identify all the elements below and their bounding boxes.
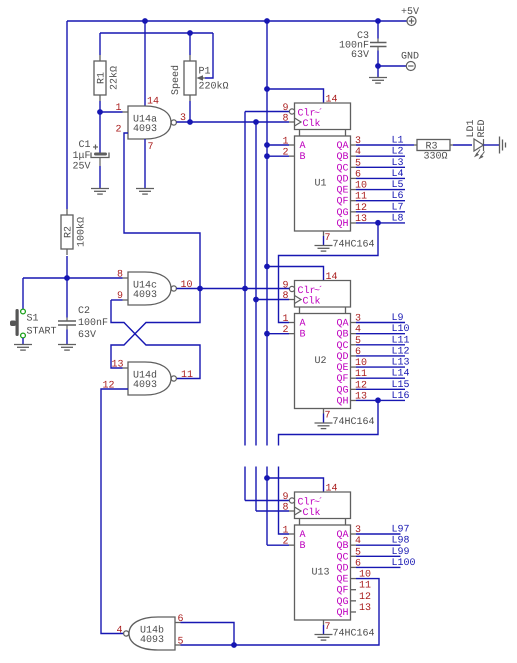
svg-text:63V: 63V	[78, 330, 96, 341]
wire latch: U14d out to U14c pin 9	[111, 300, 200, 379]
capacitor C2	[58, 318, 76, 330]
svg-text:QB: QB	[336, 330, 348, 341]
wire U14a output (clock net)	[177, 121, 290, 123]
junction U1 QH	[375, 220, 381, 226]
shift register U13 top section (Clr/Clk box)	[295, 492, 351, 525]
wire U1 Clr from clear net	[245, 111, 289, 113]
svg-text:100nF: 100nF	[78, 318, 108, 329]
wire S1 to ground	[22, 338, 24, 345]
svg-text:L8: L8	[392, 213, 404, 224]
wire U1 QH output	[356, 222, 405, 224]
U1 Clk wedge	[295, 118, 302, 126]
svg-text:11: 11	[359, 581, 371, 592]
svg-text:B: B	[300, 152, 306, 163]
junction U14b pins 5/6	[231, 642, 237, 648]
wire U13 QB output	[356, 544, 401, 546]
ground C2	[58, 345, 76, 351]
svg-text:9: 9	[282, 281, 288, 292]
svg-text:A: A	[300, 319, 306, 330]
wire U2 pin 7 to ground	[323, 414, 325, 424]
svg-text:QE: QE	[336, 186, 348, 197]
junction R2/S1/C2	[64, 275, 70, 281]
wire U13 B	[267, 544, 289, 546]
svg-text:7: 7	[325, 622, 331, 633]
junction U14c out / clear vertical	[242, 286, 248, 292]
junction VCC / U1 B	[264, 153, 270, 159]
svg-text:QA: QA	[336, 530, 348, 541]
svg-text:+5V: +5V	[401, 7, 419, 18]
wire P1 wiper to bus	[205, 33, 213, 78]
U2 pin QH stub	[351, 399, 357, 401]
wire U2 clk tap	[256, 299, 289, 301]
power symbol +5V	[407, 17, 416, 26]
svg-text:14: 14	[326, 272, 338, 283]
svg-text:L15: L15	[392, 380, 410, 391]
shift register U2 main body	[295, 314, 351, 409]
U13 pin QB stub	[351, 544, 357, 546]
wire U2 QA output	[356, 322, 405, 324]
wire U1 QD output	[356, 177, 405, 179]
wire node to C1	[99, 112, 101, 153]
U1 pin QG stub	[351, 211, 357, 213]
svg-text:L13: L13	[392, 358, 410, 369]
svg-text:22kΩ: 22kΩ	[109, 66, 121, 90]
U2 Clk wedge	[295, 296, 302, 304]
U13 pin QG stub	[351, 600, 357, 602]
wire U1 QA output	[356, 144, 405, 146]
junction VCC / U1 A	[264, 142, 270, 148]
svg-text:2: 2	[116, 125, 122, 136]
wire U14d pin 12 from U14b output	[101, 389, 128, 634]
svg-text:7: 7	[325, 233, 331, 244]
shift register U2 top section (Clr/Clk box)	[295, 281, 351, 314]
svg-text:L3: L3	[392, 158, 404, 169]
junction U14c out / latch	[197, 286, 203, 292]
U1 pin QC stub	[351, 166, 357, 168]
svg-text:L98: L98	[392, 536, 410, 547]
svg-text:L10: L10	[392, 324, 410, 335]
wire U2 QF output	[356, 377, 405, 379]
svg-text:4: 4	[117, 626, 123, 637]
junction VCC / U13 pin14	[264, 475, 270, 481]
wire R1 bottom to node	[99, 101, 101, 112]
svg-text:QB: QB	[336, 152, 348, 163]
svg-text:QH: QH	[336, 396, 348, 407]
svg-text:P1: P1	[199, 67, 211, 78]
U13 pin QC stub	[351, 555, 357, 557]
U1 pin QA stub	[351, 144, 357, 146]
wire U1 pin 14 branch	[267, 89, 324, 103]
node VCC top bus	[67, 20, 407, 22]
wire R2 bottom	[66, 256, 68, 278]
capacitor C3	[370, 39, 387, 51]
svg-text:QG: QG	[336, 597, 348, 608]
wire clear net vertical	[245, 112, 289, 501]
U13 pin QD stub	[351, 566, 357, 568]
junction VCC / U2 B	[264, 331, 270, 337]
svg-text:RED: RED	[477, 119, 488, 137]
svg-text:25V: 25V	[73, 162, 91, 173]
wire U2 QD output	[356, 355, 405, 357]
ground U1 pin7	[315, 246, 333, 252]
svg-text:8: 8	[117, 270, 123, 281]
junction output / clock vertical	[253, 119, 259, 125]
svg-text:L4: L4	[392, 169, 404, 180]
svg-text:330Ω: 330Ω	[424, 152, 448, 163]
wire U1 A	[267, 144, 289, 146]
svg-text:QE: QE	[336, 575, 348, 586]
svg-text:L100: L100	[392, 558, 416, 569]
junction VCC / U2 pin14	[264, 264, 270, 270]
U1 Clr bubble	[289, 109, 294, 114]
wire clock net vertical	[256, 122, 289, 511]
svg-text:14: 14	[326, 95, 338, 106]
wire GND connector	[378, 65, 406, 67]
svg-text:A: A	[300, 530, 306, 541]
svg-text:QG: QG	[336, 385, 348, 396]
U13 Clr bubble	[289, 498, 294, 503]
svg-text:8: 8	[282, 503, 288, 514]
svg-text:100kΩ: 100kΩ	[76, 217, 88, 247]
U1 pin QF stub	[351, 200, 357, 202]
ground U14a pin7	[136, 189, 154, 195]
wire P1 top	[189, 33, 191, 55]
nand gate U14a	[128, 106, 171, 139]
ground U2 pin7	[315, 423, 333, 429]
wire P1 bottom to U14a output	[189, 101, 191, 122]
svg-text:S1: S1	[27, 314, 39, 325]
wire C2 to ground	[66, 330, 68, 345]
wire U13 QA output	[356, 533, 401, 535]
svg-text:7: 7	[148, 142, 154, 153]
junction clock / U2 clk	[253, 297, 259, 303]
U1 pin QH stub	[351, 222, 357, 224]
svg-text:LD1: LD1	[466, 119, 477, 137]
svg-text:5: 5	[178, 637, 184, 648]
U2 pin QD stub	[351, 355, 357, 357]
svg-text:14: 14	[147, 97, 159, 108]
svg-text:12: 12	[359, 592, 371, 603]
shift register U1 main body	[295, 136, 351, 231]
svg-text:4093: 4093	[133, 290, 157, 301]
U2 pin QA stub	[351, 322, 357, 324]
svg-text:6: 6	[178, 614, 184, 625]
junction R1/C1/U14a pin1	[97, 109, 103, 115]
U13 input stubs	[289, 511, 295, 545]
svg-text:QC: QC	[336, 163, 348, 174]
svg-text:QH: QH	[336, 608, 348, 619]
led LD1	[474, 139, 484, 151]
wire U1 QA (L1) to R3	[405, 144, 414, 146]
svg-text:R1: R1	[97, 72, 108, 84]
wire C3 bottom to GND node	[377, 51, 379, 78]
wire U14a pin 14 from top bus	[144, 21, 146, 106]
nand gate U14d	[128, 362, 171, 395]
wire VCC vertical to registers	[266, 21, 268, 545]
wire U14a pin 2 feedback from latch	[124, 133, 200, 289]
U13 Clk wedge	[295, 507, 302, 515]
svg-text:4093: 4093	[133, 124, 157, 135]
svg-text:C1: C1	[79, 140, 91, 151]
U2 input stubs	[289, 300, 295, 334]
svg-text:11: 11	[181, 370, 193, 381]
svg-text:L2: L2	[392, 147, 404, 158]
U13 pin QH stub	[351, 611, 357, 613]
svg-text:4093: 4093	[133, 380, 157, 391]
wire +5V branch to second bus corner	[66, 21, 68, 209]
shift register U13 main body	[295, 525, 351, 620]
capacitor C1 (polarized)	[94, 153, 107, 156]
wire U2 QE output	[356, 366, 405, 368]
junction P1 top	[187, 30, 193, 36]
svg-text:QC: QC	[336, 552, 348, 563]
svg-text:13: 13	[112, 360, 124, 371]
svg-text:L97: L97	[392, 525, 410, 536]
svg-text:QB: QB	[336, 541, 348, 552]
wire C3 top	[377, 21, 379, 39]
U13 pin QE stub	[351, 578, 357, 580]
svg-text:R2: R2	[64, 226, 75, 238]
svg-text:B: B	[300, 541, 306, 552]
power symbol GND connector	[406, 62, 415, 71]
svg-text:B: B	[300, 330, 306, 341]
node start net	[23, 277, 123, 279]
node oscillator bus R1/P1 top	[100, 32, 213, 34]
switch S1	[21, 309, 26, 338]
wire U2 QC output	[356, 344, 405, 346]
wire U2 QG output	[356, 388, 405, 390]
svg-text:220kΩ: 220kΩ	[199, 81, 229, 93]
LD1 emission arrows	[475, 150, 484, 159]
U2 pin QF stub	[351, 377, 357, 379]
U2 pin QG stub	[351, 388, 357, 390]
ground U13 pin7	[315, 635, 333, 641]
svg-text:9: 9	[282, 103, 288, 114]
wire R3 to LED	[453, 144, 472, 146]
wire R1 top	[99, 33, 101, 55]
svg-text:U2: U2	[314, 356, 326, 367]
U1 pin QE stub	[351, 189, 357, 191]
svg-text:1: 1	[116, 103, 122, 114]
svg-text:2: 2	[282, 325, 288, 336]
wire U2 QB output	[356, 333, 405, 335]
svg-text:1μF: 1μF	[73, 151, 91, 162]
svg-text:Clr~´: Clr~´	[298, 497, 324, 509]
svg-text:Clk: Clk	[303, 296, 321, 308]
svg-text:QH: QH	[336, 219, 348, 230]
U13 pin QF stub	[351, 589, 357, 591]
wire U14a pin 1	[100, 111, 123, 113]
resistor R1	[99, 55, 101, 61]
wire U1 QF output	[356, 200, 405, 202]
junction output / P1 bottom	[187, 119, 193, 125]
U13 pin QA stub	[351, 533, 357, 535]
U2 pin QE stub	[351, 366, 357, 368]
wire C1 to ground	[99, 166, 101, 189]
svg-text:Clr~´: Clr~´	[298, 108, 324, 120]
svg-text:L9: L9	[392, 313, 404, 324]
svg-text:QE: QE	[336, 363, 348, 374]
U2 pin QC stub	[351, 344, 357, 346]
ground LED	[500, 137, 506, 154]
U1 pin QB stub	[351, 155, 357, 157]
svg-text:L6: L6	[392, 191, 404, 202]
svg-text:10: 10	[181, 280, 193, 291]
svg-text:63V: 63V	[351, 50, 369, 61]
wire U1 pin 7 to ground	[323, 236, 325, 246]
svg-text:QF: QF	[336, 374, 348, 385]
svg-text:GND: GND	[401, 51, 419, 62]
svg-text:QF: QF	[336, 586, 348, 597]
svg-text:8: 8	[282, 291, 288, 302]
svg-text:7: 7	[325, 411, 331, 422]
U1 pin QD stub	[351, 177, 357, 179]
wire U1 QG output	[356, 211, 405, 213]
svg-text:QA: QA	[336, 141, 348, 152]
wire U14c output (clear net)	[177, 288, 290, 290]
wire U1 QC output	[356, 166, 405, 168]
svg-text:1: 1	[282, 137, 288, 148]
svg-text:8: 8	[282, 114, 288, 125]
wire U13 QD output	[356, 566, 401, 568]
svg-text:QD: QD	[336, 563, 348, 574]
potentiometer P1	[189, 55, 191, 61]
svg-text:1: 1	[282, 314, 288, 325]
svg-text:C2: C2	[78, 306, 90, 317]
wire U14a pin 7 to ground	[144, 139, 146, 189]
svg-text:QD: QD	[336, 352, 348, 363]
wire C2 top	[66, 278, 68, 318]
U2 pin QB stub	[351, 333, 357, 335]
svg-text:QD: QD	[336, 174, 348, 185]
wire U13 pin 7 to ground	[323, 625, 325, 635]
svg-text:L11: L11	[392, 335, 410, 346]
svg-text:L1: L1	[392, 136, 404, 147]
svg-text:A: A	[300, 141, 306, 152]
wire U2 QH output	[356, 399, 405, 401]
P1 wiper arrow	[197, 75, 204, 81]
svg-text:L99: L99	[392, 547, 410, 558]
wire U13 pin 14 branch	[267, 478, 324, 492]
svg-text:L16: L16	[392, 391, 410, 402]
ground C1	[91, 189, 109, 195]
nand gate U14b	[129, 617, 175, 650]
svg-text:Clk: Clk	[303, 507, 321, 519]
wire U2 pin 14 branch	[267, 267, 324, 281]
svg-text:QG: QG	[336, 208, 348, 219]
wire U1 QH to U2 A	[279, 223, 379, 323]
wire U1 QB output	[356, 155, 405, 157]
wire U1 B	[267, 155, 289, 157]
svg-text:1: 1	[282, 526, 288, 537]
svg-text:74HC164: 74HC164	[333, 417, 375, 428]
C1 plus sign	[93, 145, 98, 150]
junction VCC / U1 pin14	[264, 86, 270, 92]
resistor R3	[417, 140, 450, 151]
svg-text:2: 2	[282, 148, 288, 159]
wire start net to S1	[22, 278, 24, 309]
svg-text:U1: U1	[314, 179, 326, 190]
shift register U1 top section (Clr/Clk box)	[295, 103, 351, 136]
svg-text:L12: L12	[392, 346, 410, 357]
junction top bus / VCC vertical	[264, 18, 270, 24]
wire U14b pin 6 tie	[181, 623, 235, 646]
U1 input stubs	[289, 122, 295, 156]
junction U2 QH	[375, 397, 381, 403]
svg-text:Speed: Speed	[170, 65, 182, 95]
wire U1 QE output	[356, 189, 405, 191]
svg-text:L5: L5	[392, 180, 404, 191]
svg-text:74HC164: 74HC164	[333, 629, 375, 640]
ground C3	[369, 78, 387, 84]
svg-text:2: 2	[282, 537, 288, 548]
U1 pin 7 stub	[323, 231, 325, 236]
svg-text:QF: QF	[336, 197, 348, 208]
nand gate U14c	[128, 272, 171, 305]
wire U2 B	[267, 333, 289, 335]
svg-text:QC: QC	[336, 341, 348, 352]
svg-text:4093: 4093	[140, 635, 164, 646]
U14b input stubs	[175, 623, 181, 646]
svg-text:14: 14	[326, 484, 338, 495]
svg-text:12: 12	[103, 381, 115, 392]
svg-text:13: 13	[359, 603, 371, 614]
junction top bus / U14a pin14	[142, 18, 148, 24]
U2 pin 7 stub	[323, 409, 325, 414]
U13 pin 7 stub	[323, 620, 325, 625]
junction top bus / C3	[375, 18, 381, 24]
svg-text:Clr~´: Clr~´	[298, 285, 324, 297]
svg-text:Clk: Clk	[303, 118, 321, 130]
svg-text:QA: QA	[336, 319, 348, 330]
wire LED cathode to ground	[484, 144, 500, 146]
wire U13 QC output	[356, 555, 401, 557]
svg-text:L7: L7	[392, 202, 404, 213]
junction GND line	[375, 63, 381, 69]
svg-text:START: START	[27, 327, 57, 338]
wire latch: U14c out to U14d pin 13	[111, 289, 200, 369]
svg-text:L14: L14	[392, 369, 410, 380]
resistor R2	[66, 209, 68, 215]
wire U14c pin 9 input stub	[111, 299, 123, 301]
wire U13 QE to U14b pin 5	[181, 579, 380, 645]
svg-text:U13: U13	[311, 568, 329, 579]
U2 Clr bubble	[289, 286, 294, 291]
svg-text:74HC164: 74HC164	[333, 240, 375, 251]
svg-text:9: 9	[282, 492, 288, 503]
ground S1	[14, 345, 32, 351]
